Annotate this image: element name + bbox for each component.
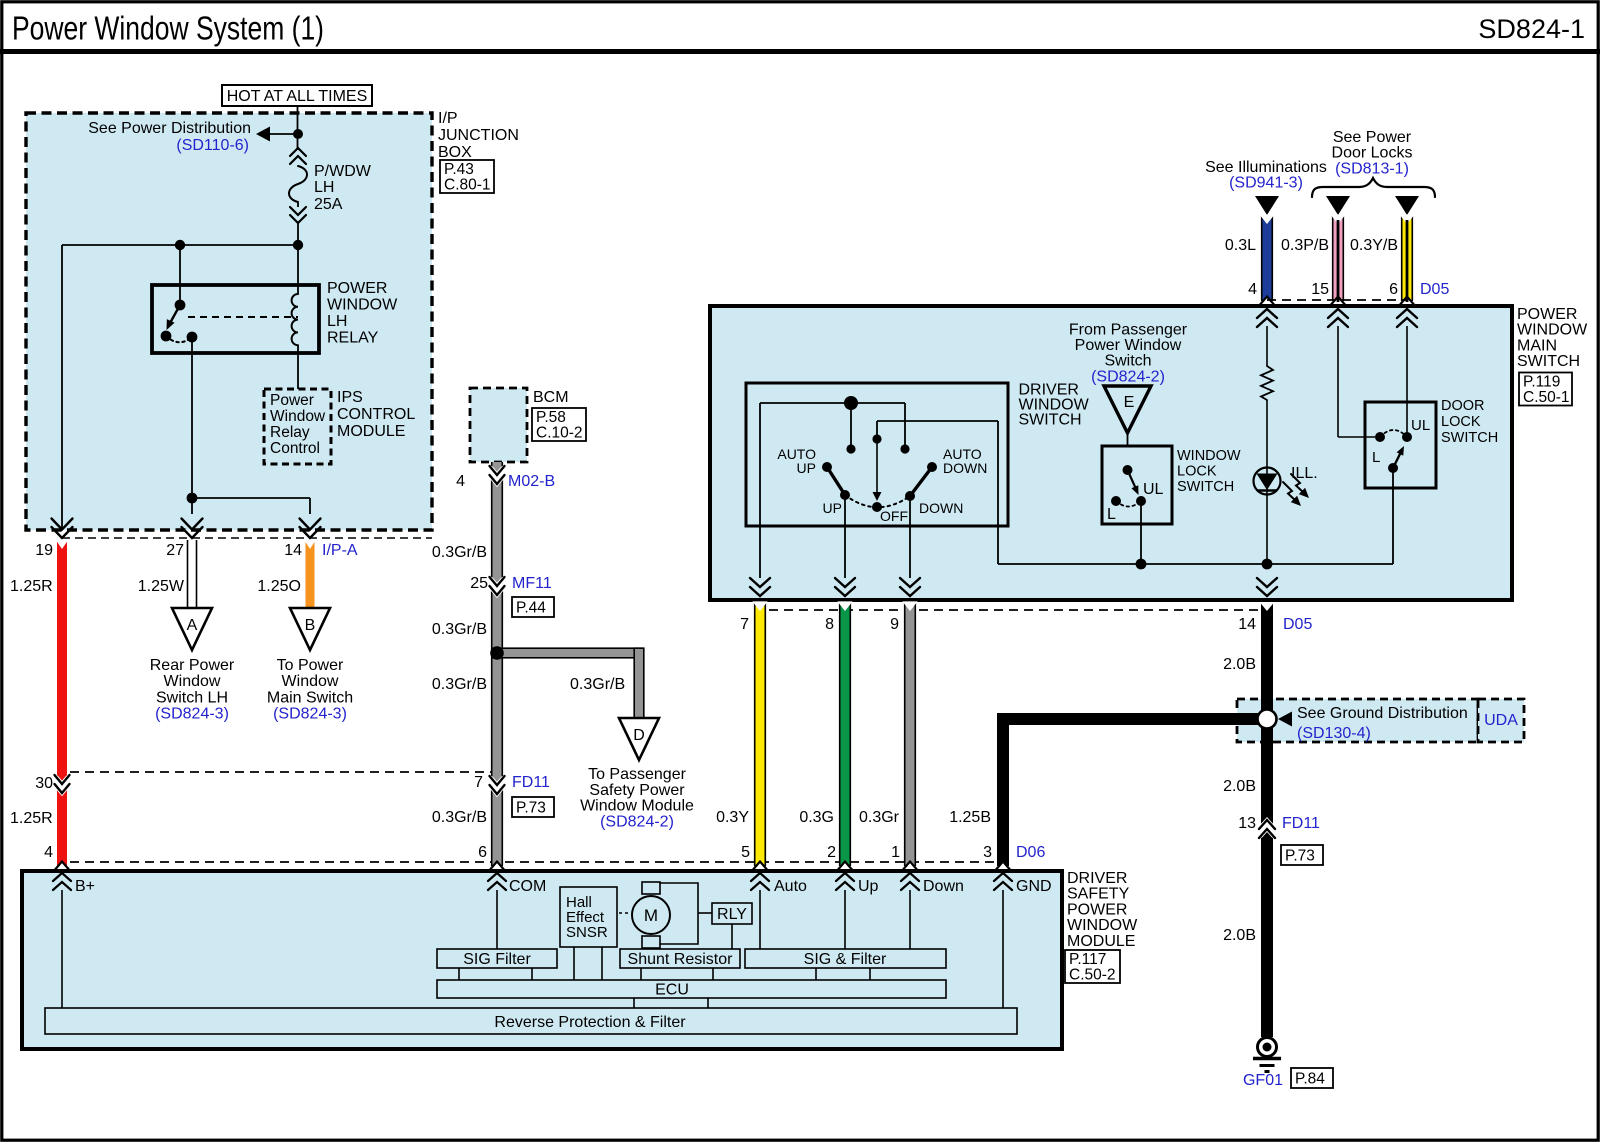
svg-text:C.10-2: C.10-2 xyxy=(536,425,583,442)
svg-text:Down: Down xyxy=(923,878,964,895)
svg-text:15: 15 xyxy=(1311,281,1329,298)
svg-text:L: L xyxy=(1107,506,1116,523)
svg-text:Safety Power: Safety Power xyxy=(589,782,685,799)
svg-text:2: 2 xyxy=(827,844,836,861)
svg-text:6: 6 xyxy=(1389,281,1398,298)
svg-text:Up: Up xyxy=(858,878,879,895)
svg-text:Door Locks: Door Locks xyxy=(1332,145,1413,162)
svg-text:E: E xyxy=(1124,394,1135,411)
svg-text:19: 19 xyxy=(35,542,53,559)
svg-text:P/WDW: P/WDW xyxy=(314,163,372,180)
svg-text:D06: D06 xyxy=(1016,844,1045,861)
svg-text:M: M xyxy=(644,906,658,925)
svg-text:0.3L: 0.3L xyxy=(1225,237,1256,254)
svg-text:Control: Control xyxy=(270,440,320,457)
svg-text:Shunt Resistor: Shunt Resistor xyxy=(628,951,734,968)
svg-text:SIG & Filter: SIG & Filter xyxy=(804,951,887,968)
svg-text:1.25O: 1.25O xyxy=(257,578,301,595)
svg-text:8: 8 xyxy=(825,616,834,633)
svg-text:LOCK: LOCK xyxy=(1177,464,1217,480)
svg-text:WINDOW: WINDOW xyxy=(1067,917,1138,934)
svg-text:7: 7 xyxy=(474,774,483,791)
svg-text:Window Module: Window Module xyxy=(580,798,694,815)
svg-text:SIG Filter: SIG Filter xyxy=(463,951,531,968)
svg-text:C.50-2: C.50-2 xyxy=(1069,967,1116,984)
svg-text:(SD110-6): (SD110-6) xyxy=(176,137,249,154)
svg-text:0.3P/B: 0.3P/B xyxy=(1281,237,1329,254)
svg-text:4: 4 xyxy=(44,844,53,861)
svg-text:See Power Distribution: See Power Distribution xyxy=(88,120,251,137)
svg-text:SAFETY: SAFETY xyxy=(1067,886,1130,903)
svg-text:SWITCH: SWITCH xyxy=(1019,412,1082,429)
svg-text:1.25W: 1.25W xyxy=(138,578,185,595)
svg-text:Relay: Relay xyxy=(270,424,310,441)
svg-text:ECU: ECU xyxy=(655,982,689,999)
svg-text:1: 1 xyxy=(891,844,900,861)
svg-text:(SD130-4): (SD130-4) xyxy=(1297,725,1371,742)
svg-text:P.73: P.73 xyxy=(516,799,546,816)
svg-text:RLY: RLY xyxy=(717,906,747,923)
svg-text:0.3Gr/B: 0.3Gr/B xyxy=(570,676,625,693)
svg-text:0.3Gr: 0.3Gr xyxy=(859,809,900,826)
svg-text:MF11: MF11 xyxy=(512,575,552,592)
svg-text:(SD941-3): (SD941-3) xyxy=(1229,175,1303,192)
svg-text:0.3Gr/B: 0.3Gr/B xyxy=(432,544,487,561)
svg-text:0.3Gr/B: 0.3Gr/B xyxy=(432,621,487,638)
svg-text:1.25B: 1.25B xyxy=(949,809,991,826)
svg-text:0.3G: 0.3G xyxy=(799,809,834,826)
svg-text:I/P: I/P xyxy=(438,110,458,127)
svg-text:P.44: P.44 xyxy=(516,599,546,616)
svg-text:JUNCTION: JUNCTION xyxy=(438,127,519,144)
svg-text:DOOR: DOOR xyxy=(1441,398,1485,414)
svg-text:Switch: Switch xyxy=(1104,353,1151,370)
svg-text:RELAY: RELAY xyxy=(327,330,379,347)
svg-text:FD11: FD11 xyxy=(512,774,550,791)
svg-text:OFF: OFF xyxy=(880,508,908,524)
svg-text:I/P-A: I/P-A xyxy=(322,542,358,559)
svg-text:Window: Window xyxy=(282,673,339,690)
svg-text:P.58: P.58 xyxy=(536,409,566,426)
svg-text:(SD824-3): (SD824-3) xyxy=(155,706,229,723)
svg-text:3: 3 xyxy=(983,844,992,861)
svg-text:Power: Power xyxy=(270,392,314,409)
svg-text:DOWN: DOWN xyxy=(943,460,987,476)
svg-text:UL: UL xyxy=(1143,481,1164,498)
svg-text:14: 14 xyxy=(1238,616,1256,633)
svg-text:SWITCH: SWITCH xyxy=(1441,430,1498,446)
svg-text:UP: UP xyxy=(797,460,816,476)
svg-text:HOT AT ALL TIMES: HOT AT ALL TIMES xyxy=(227,88,368,105)
svg-text:B+: B+ xyxy=(75,878,95,895)
svg-text:UDA: UDA xyxy=(1484,712,1518,729)
svg-text:0.3Y/B: 0.3Y/B xyxy=(1350,237,1398,254)
svg-text:Power Window System (1): Power Window System (1) xyxy=(12,10,324,47)
svg-text:P.119: P.119 xyxy=(1523,374,1560,391)
svg-text:27: 27 xyxy=(166,542,184,559)
svg-text:13: 13 xyxy=(1238,815,1256,832)
svg-text:POWER: POWER xyxy=(1517,306,1577,323)
svg-text:(SD824-2): (SD824-2) xyxy=(600,813,674,830)
svg-text:2.0B: 2.0B xyxy=(1223,927,1256,944)
svg-text:A: A xyxy=(187,617,198,634)
svg-text:WINDOW: WINDOW xyxy=(1517,322,1588,339)
svg-text:7: 7 xyxy=(740,616,749,633)
svg-text:P.117: P.117 xyxy=(1069,951,1106,968)
svg-text:0.3Gr/B: 0.3Gr/B xyxy=(432,676,487,693)
svg-text:WINDOW: WINDOW xyxy=(327,297,398,314)
svg-text:L: L xyxy=(1372,449,1380,466)
svg-text:1.25R: 1.25R xyxy=(10,810,53,827)
svg-text:UL: UL xyxy=(1411,417,1430,434)
svg-text:LOCK: LOCK xyxy=(1441,414,1481,430)
svg-text:25: 25 xyxy=(470,575,488,592)
svg-text:P.73: P.73 xyxy=(1285,847,1315,864)
svg-text:30: 30 xyxy=(35,775,53,792)
svg-text:SD824-1: SD824-1 xyxy=(1478,14,1585,44)
svg-text:CONTROL: CONTROL xyxy=(337,406,415,423)
svg-text:Main Switch: Main Switch xyxy=(267,689,353,706)
svg-text:C.80-1: C.80-1 xyxy=(444,177,491,194)
svg-text:C.50-1: C.50-1 xyxy=(1523,389,1570,406)
svg-text:From Passenger: From Passenger xyxy=(1069,322,1188,339)
svg-text:SWITCH: SWITCH xyxy=(1517,353,1580,370)
svg-text:DOWN: DOWN xyxy=(919,500,963,516)
svg-text:Window: Window xyxy=(270,408,326,425)
svg-text:14: 14 xyxy=(284,542,302,559)
svg-text:MODULE: MODULE xyxy=(1067,933,1135,950)
svg-text:See Ground Distribution: See Ground Distribution xyxy=(1297,705,1468,722)
svg-text:UP: UP xyxy=(823,500,842,516)
svg-text:To Passenger: To Passenger xyxy=(588,766,687,783)
svg-text:Reverse Protection & Filter: Reverse Protection & Filter xyxy=(494,1014,686,1031)
svg-text:Switch LH: Switch LH xyxy=(156,689,228,706)
svg-text:SWITCH: SWITCH xyxy=(1177,479,1234,495)
svg-text:Power Window: Power Window xyxy=(1075,337,1182,354)
svg-text:LH: LH xyxy=(314,179,334,196)
svg-text:FD11: FD11 xyxy=(1282,815,1320,832)
svg-text:WINDOW: WINDOW xyxy=(1177,448,1241,464)
svg-text:D05: D05 xyxy=(1420,281,1449,298)
svg-text:P.43: P.43 xyxy=(444,161,474,178)
svg-text:To Power: To Power xyxy=(277,657,344,674)
svg-text:GF01: GF01 xyxy=(1243,1072,1283,1089)
svg-text:ILL.: ILL. xyxy=(1291,465,1318,482)
svg-text:D: D xyxy=(633,727,645,744)
svg-text:MODULE: MODULE xyxy=(337,423,405,440)
svg-text:BCM: BCM xyxy=(533,389,569,406)
svg-text:0.3Y: 0.3Y xyxy=(716,809,749,826)
svg-text:6: 6 xyxy=(478,844,487,861)
svg-text:COM: COM xyxy=(509,878,546,895)
svg-text:2.0B: 2.0B xyxy=(1223,656,1256,673)
svg-text:POWER: POWER xyxy=(327,280,387,297)
svg-text:M02-B: M02-B xyxy=(508,473,555,490)
svg-text:4: 4 xyxy=(456,473,465,490)
svg-text:LH: LH xyxy=(327,313,347,330)
svg-text:BOX: BOX xyxy=(438,144,472,161)
svg-text:2.0B: 2.0B xyxy=(1223,778,1256,795)
svg-text:See Power: See Power xyxy=(1333,129,1412,146)
svg-text:(SD824-2): (SD824-2) xyxy=(1091,368,1165,385)
svg-text:D05: D05 xyxy=(1283,616,1312,633)
svg-text:Auto: Auto xyxy=(774,878,807,895)
svg-text:DRIVER: DRIVER xyxy=(1067,870,1127,887)
svg-text:5: 5 xyxy=(741,844,750,861)
svg-text:Rear Power: Rear Power xyxy=(150,657,235,674)
svg-text:SNSR: SNSR xyxy=(566,924,608,941)
svg-text:GND: GND xyxy=(1016,878,1052,895)
svg-text:(SD813-1): (SD813-1) xyxy=(1335,160,1409,177)
svg-text:(SD824-3): (SD824-3) xyxy=(273,706,347,723)
svg-text:IPS: IPS xyxy=(337,389,363,406)
svg-text:1.25R: 1.25R xyxy=(10,578,53,595)
svg-text:MAIN: MAIN xyxy=(1517,337,1557,354)
svg-text:POWER: POWER xyxy=(1067,901,1127,918)
svg-text:25A: 25A xyxy=(314,196,343,213)
svg-text:P.84: P.84 xyxy=(1295,1070,1325,1087)
svg-text:B: B xyxy=(305,617,316,634)
svg-text:0.3Gr/B: 0.3Gr/B xyxy=(432,809,487,826)
svg-text:See Illuminations: See Illuminations xyxy=(1205,159,1327,176)
svg-text:9: 9 xyxy=(890,616,899,633)
svg-text:4: 4 xyxy=(1248,281,1257,298)
svg-text:Window: Window xyxy=(164,673,221,690)
